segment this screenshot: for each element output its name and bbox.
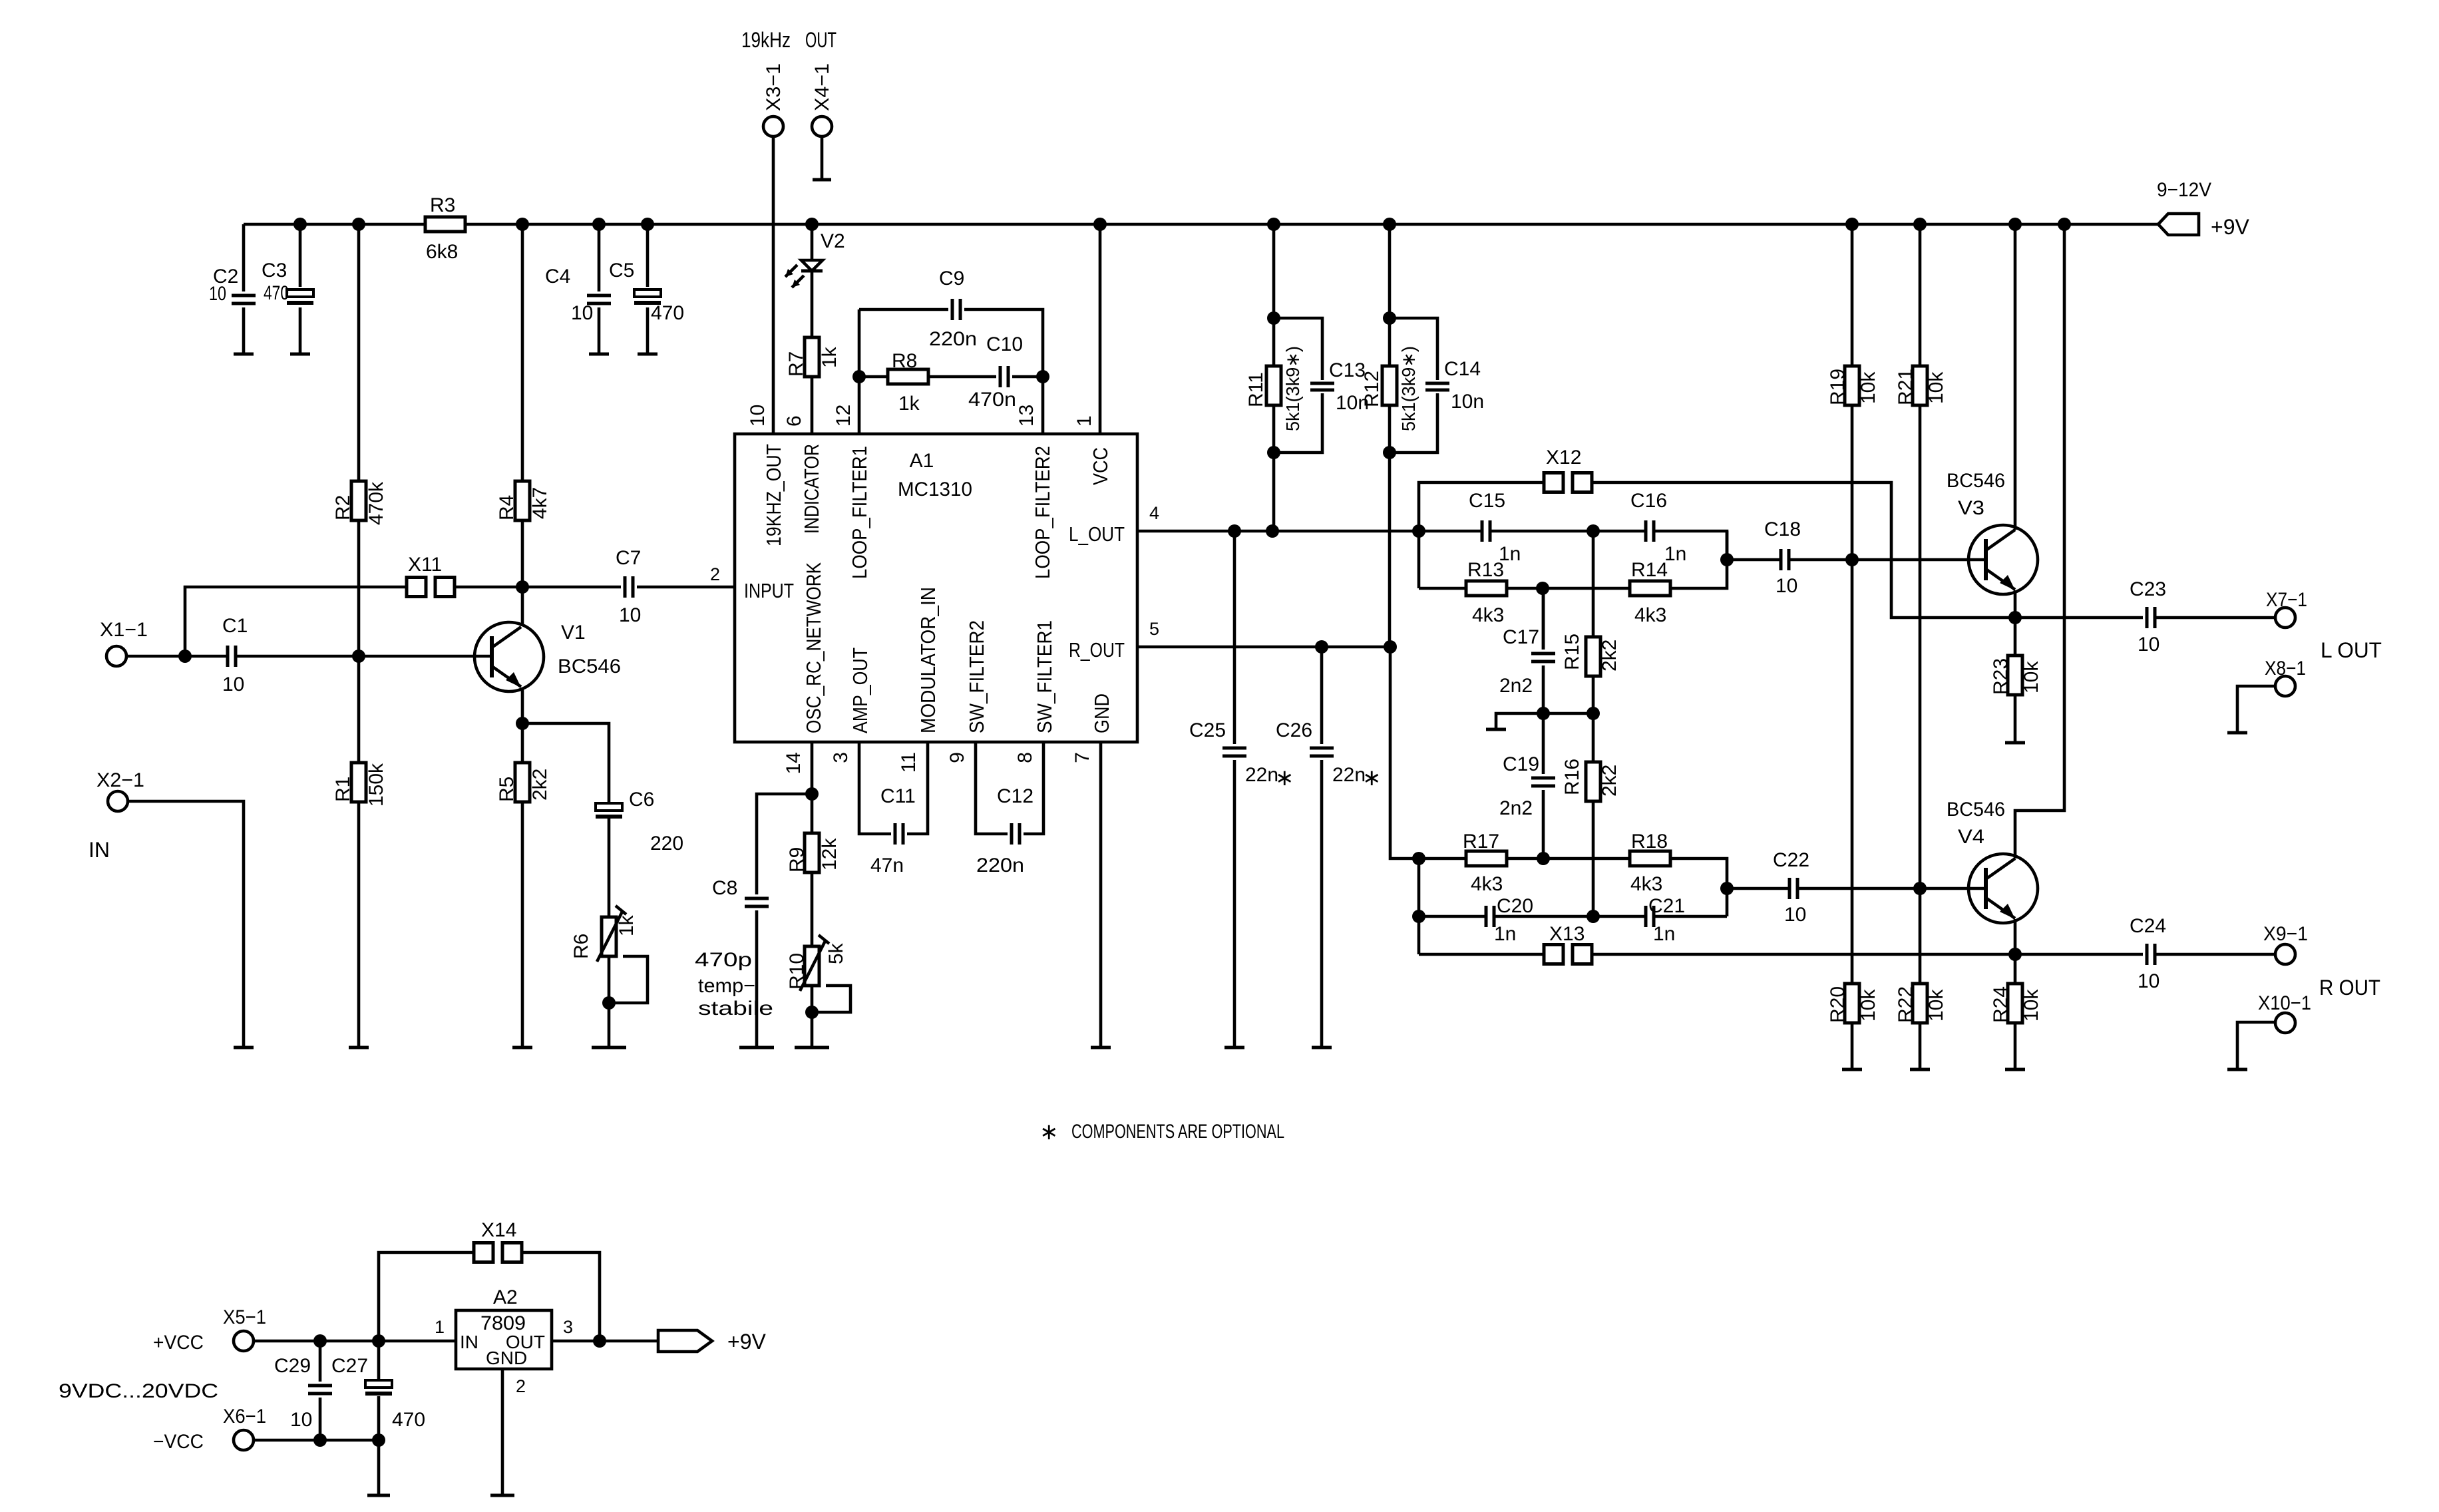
junction R16 bottom node: [1587, 910, 1600, 923]
wire R5 top: [521, 723, 524, 763]
terminal X1-1: [106, 646, 126, 666]
svg-text:GND: GND: [1090, 693, 1113, 733]
junction input node: [178, 650, 192, 663]
junction crossover left: [1537, 707, 1550, 720]
wire R19 column down: [1851, 560, 1854, 984]
svg-text:L_OUT: L_OUT: [1069, 522, 1125, 546]
resistor R12: [1382, 366, 1397, 405]
terminal X9-1: [2275, 944, 2295, 964]
junction R11 tap: [1266, 524, 1279, 538]
ground R10: [795, 1046, 829, 1049]
wire R17 to R18: [1507, 857, 1630, 860]
junction C27 bottom: [372, 1433, 385, 1447]
svg-text:3: 3: [830, 752, 852, 763]
svg-text:4k3: 4k3: [1634, 604, 1666, 626]
svg-text:C12: C12: [997, 785, 1033, 807]
svg-text:470: 470: [392, 1409, 425, 1431]
svg-text:LOOP_FILTER1: LOOP_FILTER1: [848, 446, 871, 579]
ground X4-1: [813, 178, 831, 182]
terminal X8-1: [2275, 676, 2295, 696]
wire R4 bottom: [521, 520, 524, 587]
wire X3-1 to pin 10: [772, 136, 775, 434]
svg-text:1: 1: [435, 1317, 445, 1337]
junction C27 top: [372, 1334, 385, 1348]
svg-text:2: 2: [710, 564, 720, 584]
wire R23 bottom: [2014, 695, 2017, 743]
capacitor C27 wire: [377, 1341, 381, 1440]
wire R18 right loop: [1670, 858, 1727, 916]
wire pin 3 down: [859, 742, 891, 834]
transistor V3: [1969, 525, 2038, 594]
svg-text:1n: 1n: [1494, 923, 1516, 945]
svg-text:R14: R14: [1631, 559, 1668, 581]
wire R19 top: [1851, 224, 1854, 366]
svg-text:C19: C19: [1503, 753, 1539, 775]
resistor R1: [351, 763, 366, 802]
resistor R21: [1913, 366, 1927, 405]
junction crossover right: [1587, 707, 1600, 720]
junction R12 bottom node: [1383, 446, 1396, 459]
wire C20 to C21: [1494, 915, 1646, 918]
svg-text:4k3: 4k3: [1472, 604, 1504, 626]
resistor R22: [1913, 984, 1927, 1023]
power flag +9V PSU: [658, 1330, 712, 1352]
svg-text:10: 10: [2138, 634, 2159, 656]
svg-text:OSC_RC_NETWORK: OSC_RC_NETWORK: [802, 562, 825, 733]
wire pin 14 down: [811, 742, 814, 833]
wire R14 right loop: [1670, 531, 1727, 588]
svg-text:−VCC: −VCC: [153, 1431, 204, 1453]
wire collector node to C7: [522, 586, 621, 589]
junction on +9V rail x=2783: [1845, 218, 1859, 231]
svg-text:C8: C8: [712, 877, 737, 899]
wire X8-1 ground stub: [2237, 686, 2275, 733]
wire R7 to pin 6: [811, 377, 814, 434]
wire C8 bottom: [755, 910, 759, 1047]
capacitor C12: [1012, 823, 1020, 845]
svg-text:X5−1: X5−1: [223, 1306, 266, 1328]
junction X14 right node: [593, 1334, 606, 1348]
ground crossover: [1486, 728, 1506, 731]
junction C29 bottom: [313, 1433, 327, 1447]
svg-text:stabile: stabile: [698, 998, 773, 1020]
wire X12 column lower: [1417, 531, 1421, 588]
wire R2 bottom to base node: [357, 520, 361, 656]
svg-text:10: 10: [2138, 970, 2159, 992]
svg-text:R OUT: R OUT: [2319, 976, 2380, 1000]
wire C8 branch: [757, 794, 812, 894]
ground A2: [490, 1494, 514, 1497]
regulator A2 7809 box: [456, 1310, 552, 1369]
svg-text:12k: 12k: [819, 838, 841, 870]
capacitor C17 wire top: [1542, 588, 1545, 650]
svg-text:1k: 1k: [616, 914, 638, 936]
wire X10-1 ground stub: [2237, 1022, 2275, 1069]
wire V3 emitter: [2014, 590, 2017, 618]
svg-text:X6−1: X6−1: [223, 1406, 266, 1427]
wire pin 7 GND: [1099, 742, 1103, 1047]
svg-text:9VDC...20VDC: 9VDC...20VDC: [59, 1380, 218, 1402]
junction on +9V rail x=1220: [805, 218, 819, 231]
junction base node R2: [352, 650, 365, 663]
wire R19 to base node: [1851, 405, 1854, 560]
svg-text:X1−1: X1−1: [100, 619, 148, 641]
ground R1: [349, 1046, 369, 1049]
svg-text:12: 12: [833, 405, 854, 427]
svg-text:R12: R12: [1361, 371, 1383, 407]
svg-text:4k7: 4k7: [529, 487, 551, 519]
svg-text:+VCC: +VCC: [153, 1332, 204, 1354]
junction on +9V rail x=539: [352, 218, 365, 231]
svg-text:R_OUT: R_OUT: [1069, 638, 1125, 661]
capacitor C11: [895, 823, 903, 845]
svg-text:10: 10: [619, 604, 641, 626]
junction R_OUT corner: [1384, 640, 1397, 654]
svg-text:SW_FILTER1: SW_FILTER1: [1033, 620, 1056, 733]
wire C26 bottom: [1320, 760, 1324, 1047]
capacitor C3 polarized: [287, 289, 313, 297]
wire V1 emitter: [521, 687, 524, 723]
wire R12 upper: [1388, 318, 1392, 366]
svg-text:VCC: VCC: [1089, 447, 1112, 485]
capacitor C9: [952, 299, 960, 320]
svg-text:OUT: OUT: [805, 28, 837, 52]
svg-text:R24: R24: [1990, 986, 2012, 1023]
terminal X6-1: [234, 1430, 254, 1450]
resistor R19: [1845, 366, 1859, 405]
svg-text:C22: C22: [1773, 849, 1809, 871]
svg-text:R22: R22: [1895, 986, 1917, 1023]
svg-text:R18: R18: [1631, 831, 1668, 852]
svg-text:7: 7: [1071, 752, 1093, 763]
svg-text:V1: V1: [561, 622, 586, 644]
ground C2: [234, 353, 254, 356]
wire C25 top: [1233, 531, 1236, 744]
capacitor C17 wire top: [1542, 588, 1545, 650]
wire C18 to R19 node: [1789, 558, 1852, 562]
ground C5: [638, 353, 657, 356]
wire C26 top: [1320, 647, 1324, 744]
svg-text:R16: R16: [1561, 759, 1583, 795]
svg-text:X7−1: X7−1: [2266, 589, 2307, 611]
svg-text:11: 11: [898, 752, 920, 773]
svg-text:220: 220: [650, 833, 683, 854]
svg-text:1k: 1k: [898, 393, 920, 415]
wire C21 right: [1654, 915, 1727, 918]
svg-text:MC1310: MC1310: [898, 478, 972, 500]
svg-text:470: 470: [264, 282, 289, 304]
wire C27 bottom: [377, 1440, 381, 1495]
wire X11 to collector node: [455, 586, 522, 589]
svg-text:C20: C20: [1497, 895, 1533, 917]
svg-text:10: 10: [222, 673, 244, 695]
svg-text:C29: C29: [274, 1355, 311, 1377]
wire R4 top: [521, 224, 524, 481]
junction on +9V rail x=1653: [1093, 218, 1107, 231]
capacitor C23: [2147, 607, 2155, 628]
svg-text:R9: R9: [786, 847, 808, 872]
wire R6 bottom: [608, 956, 611, 1047]
svg-text:X4−1: X4−1: [811, 63, 833, 111]
ground C25: [1224, 1046, 1244, 1049]
junction C19 bottom node: [1537, 852, 1550, 865]
junction C26 tap: [1315, 640, 1328, 654]
junction on +9V rail x=973: [641, 218, 654, 231]
svg-text:C23: C23: [2130, 578, 2166, 600]
resistor R15: [1586, 637, 1600, 676]
junction V1 collector node: [516, 580, 529, 594]
wire R15 bottom: [1592, 676, 1595, 713]
resistor R14: [1630, 581, 1670, 596]
wire emitter to C24: [2015, 953, 2143, 956]
resistor R13: [1466, 581, 1507, 596]
terminal X5-1: [234, 1331, 254, 1351]
svg-text:C9: C9: [939, 268, 964, 289]
svg-text:10n: 10n: [1451, 391, 1484, 413]
terminal X4-1: [812, 116, 832, 136]
svg-text:C10: C10: [986, 333, 1023, 355]
svg-text:R15: R15: [1561, 634, 1583, 670]
svg-text:IN: IN: [460, 1332, 478, 1352]
svg-text:X3−1: X3−1: [763, 63, 785, 111]
capacitor C1: [228, 646, 236, 667]
capacitor C13 loop: [1274, 318, 1322, 453]
svg-text:X12: X12: [1546, 447, 1581, 469]
svg-text:BC546: BC546: [1947, 470, 2005, 492]
resistor R4: [515, 481, 530, 520]
trimmer R6 arrow: [597, 906, 626, 962]
capacitor C29 wire: [319, 1341, 322, 1440]
wire R9 to R10: [811, 872, 814, 946]
svg-text:INPUT: INPUT: [744, 579, 794, 602]
svg-text:C3: C3: [262, 260, 287, 282]
svg-text:BC546: BC546: [1947, 799, 2005, 821]
transistor V1: [474, 622, 544, 691]
svg-text:10k: 10k: [2020, 989, 2042, 1022]
wire R24 top: [2014, 954, 2017, 984]
connector X14: [474, 1243, 493, 1262]
svg-text:10: 10: [1776, 575, 1797, 597]
svg-text:R10: R10: [786, 953, 808, 990]
wire R10 wiper loop: [812, 986, 850, 1012]
capacitor C26: [1310, 748, 1334, 756]
svg-text:10k: 10k: [1925, 989, 1947, 1022]
ground R22: [1910, 1068, 1930, 1071]
svg-text:6: 6: [783, 415, 805, 427]
svg-text:R19: R19: [1827, 369, 1849, 405]
svg-text:R21: R21: [1895, 369, 1917, 405]
svg-text:10: 10: [571, 302, 593, 324]
svg-text:X11: X11: [408, 554, 442, 576]
svg-text:C24: C24: [2130, 915, 2166, 937]
capacitor C24: [2147, 944, 2155, 965]
svg-text:10k: 10k: [1857, 989, 1879, 1022]
wire R11 top: [1272, 224, 1276, 318]
ground C3: [290, 353, 310, 356]
junction C29 top: [313, 1334, 327, 1348]
svg-text:9−12V: 9−12V: [2157, 179, 2211, 201]
wire C16 to right loop: [1654, 531, 1727, 560]
op-amp U1 A1 MC1310 box: [735, 434, 1137, 742]
svg-text:X9−1: X9−1: [2263, 923, 2308, 945]
ground stub crossover: [1496, 713, 1543, 729]
trimmer R10 arrow: [800, 935, 829, 991]
LED V2: [801, 260, 823, 271]
resistor R20: [1845, 984, 1859, 1023]
svg-text:470p: 470p: [695, 949, 752, 971]
ground R6: [592, 1046, 626, 1049]
svg-text:C1: C1: [222, 615, 248, 637]
svg-text:C15: C15: [1469, 490, 1505, 512]
svg-text:2n2: 2n2: [1499, 675, 1533, 697]
wire R_OUT drop: [1390, 647, 1419, 858]
wire A2 GND pin 2: [501, 1369, 504, 1495]
wire V2 to R7: [811, 271, 814, 337]
resistor R23: [2008, 656, 2022, 695]
wire to V3 base: [1852, 558, 1986, 562]
svg-text:4k3: 4k3: [1630, 873, 1662, 895]
svg-text:R11: R11: [1245, 372, 1267, 407]
svg-text:10: 10: [747, 405, 769, 427]
wire C17 bottom: [1542, 665, 1545, 713]
junction X12 column node: [1412, 524, 1425, 538]
capacitor C4 wire: [598, 224, 601, 354]
wire X13 row left: [1419, 953, 1543, 956]
connector X12: [1544, 473, 1563, 492]
capacitor C5 wire: [646, 224, 650, 354]
wire V3 collector: [2014, 224, 2017, 530]
svg-text:INDICATOR: INDICATOR: [800, 444, 823, 534]
svg-text:V4: V4: [1958, 826, 1984, 848]
ground C8: [739, 1046, 774, 1049]
wire R22 bottom: [1919, 1023, 1922, 1069]
wire C20 row left: [1419, 915, 1486, 918]
LED V2 arrows: [785, 265, 804, 287]
junction R11 top node: [1267, 311, 1280, 325]
svg-text:C21: C21: [1648, 895, 1685, 917]
ground X2-1: [234, 1046, 254, 1049]
svg-text:10: 10: [290, 1409, 312, 1431]
ground X8-1: [2227, 731, 2247, 735]
wire C12 to pin 8: [1024, 742, 1043, 834]
wire R8 row left: [859, 375, 888, 379]
wire pin 9 down: [976, 742, 1008, 834]
capacitor C19: [1531, 778, 1555, 786]
svg-text:L OUT: L OUT: [2321, 638, 2382, 662]
capacitor C8: [745, 898, 769, 906]
svg-text:BC546: BC546: [558, 656, 621, 677]
wire R12 top: [1388, 224, 1392, 318]
wire C10 to pin 13: [1012, 375, 1043, 379]
svg-text:R5: R5: [496, 777, 518, 802]
wire R13 row left: [1419, 587, 1466, 590]
svg-text:14: 14: [783, 752, 805, 774]
svg-text:19kHz: 19kHz: [741, 28, 791, 52]
junction pin 12 node: [852, 370, 866, 383]
wire C9 row left: [859, 308, 948, 311]
wire X2-1 to ground: [128, 801, 244, 1047]
svg-text:R20: R20: [1827, 986, 1849, 1023]
svg-text:+9V: +9V: [2211, 215, 2249, 239]
svg-text:X13: X13: [1549, 923, 1585, 945]
capacitor C14 loop: [1390, 318, 1437, 453]
wire pin 12 up: [858, 309, 861, 434]
junction R17 row left: [1412, 852, 1425, 865]
capacitor C25: [1222, 748, 1246, 756]
svg-text:C18: C18: [1764, 518, 1801, 540]
trimmer R6: [602, 917, 616, 956]
resistor R18: [1630, 851, 1670, 866]
wire crossover: [1543, 712, 1593, 715]
wire X14 left riser: [379, 1252, 473, 1341]
capacitor C18: [1781, 549, 1789, 570]
wire C18 left: [1727, 558, 1781, 562]
capacitor C21: [1646, 906, 1654, 927]
svg-text:3: 3: [563, 1317, 573, 1337]
svg-text:+9V: +9V: [727, 1330, 766, 1354]
transistor V4: [1969, 854, 2038, 923]
resistor R17: [1466, 851, 1507, 866]
junction R11 bottom node: [1267, 446, 1280, 459]
svg-text:LOOP_FILTER2: LOOP_FILTER2: [1031, 446, 1054, 579]
svg-text:X2−1: X2−1: [96, 769, 144, 791]
svg-text:13: 13: [1016, 405, 1037, 427]
junction R15 top node: [1587, 524, 1600, 538]
svg-text:47n: 47n: [870, 854, 904, 876]
wire +9V top rail left segment: [244, 223, 425, 226]
svg-text:AMP_OUT: AMP_OUT: [848, 648, 872, 733]
wire C15 to C16: [1490, 530, 1646, 533]
capacitor C20: [1486, 906, 1494, 927]
resistor R16: [1586, 762, 1600, 801]
svg-text:470n: 470n: [968, 389, 1016, 411]
wire C25 bottom: [1233, 760, 1236, 1047]
wire R12 to R_OUT row: [1388, 453, 1392, 647]
svg-text:R23: R23: [1990, 658, 2012, 695]
resistor R9: [805, 833, 819, 872]
capacitor C2 wire: [242, 224, 246, 354]
resistor R24: [2008, 984, 2022, 1023]
junction C18 tap node: [1720, 553, 1734, 566]
wire R21 column down: [1919, 405, 1922, 984]
svg-text:∗: ∗: [1275, 765, 1294, 791]
svg-text:220n: 220n: [929, 328, 977, 350]
svg-text:10k: 10k: [2020, 661, 2042, 693]
ground C26: [1312, 1046, 1332, 1049]
svg-text:150k: 150k: [365, 763, 387, 807]
svg-text:A2: A2: [493, 1286, 518, 1308]
svg-text:2k2: 2k2: [1598, 765, 1620, 797]
svg-text:4: 4: [1149, 503, 1159, 523]
junction on +9V rail x=900: [592, 218, 606, 231]
svg-text:R7: R7: [785, 351, 807, 377]
wire R2 top: [357, 224, 361, 481]
svg-text:C6: C6: [629, 789, 654, 811]
power flag +9V main rail: [2158, 214, 2199, 235]
capacitor C29: [308, 1386, 332, 1394]
wire R17 row left: [1419, 857, 1466, 860]
wire X1-1 to C1: [126, 655, 227, 658]
wire C11 to pin 11: [907, 742, 928, 834]
wire X12 to V3 emitter: [1592, 482, 2015, 618]
ground X10-1: [2227, 1068, 2247, 1071]
junction C22 tap node: [1720, 882, 1734, 895]
svg-text:470k: 470k: [365, 481, 387, 525]
svg-text:X14: X14: [481, 1219, 516, 1241]
svg-text:2k2: 2k2: [529, 769, 551, 801]
junction C25 tap: [1228, 524, 1241, 538]
resistor R3: [425, 217, 465, 232]
